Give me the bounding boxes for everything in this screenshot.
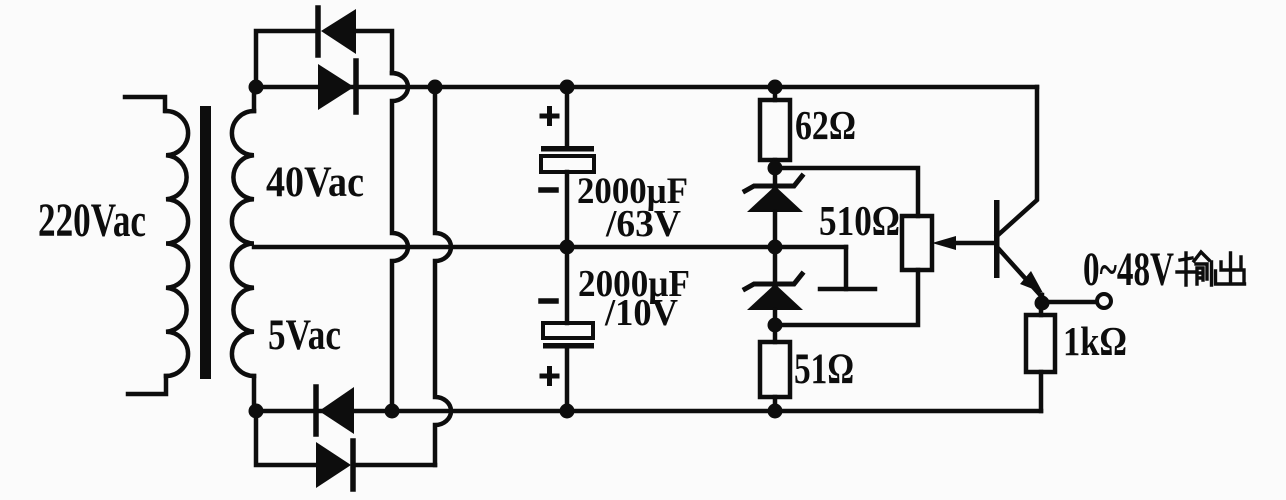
wire secondary bottom stub: [252, 376, 257, 411]
wire secondary top stub: [252, 87, 257, 111]
ground bar: [820, 287, 875, 292]
svg-text:/10V: /10V: [604, 292, 678, 334]
diode D3 triangle: [319, 387, 354, 434]
diode D2 triangle: [318, 64, 354, 110]
junction node crossing B top: [428, 80, 443, 95]
svg-text:40Vac: 40Vac: [266, 159, 364, 206]
junction node zener bottom: [768, 318, 783, 333]
svg-text:5Vac: 5Vac: [268, 312, 341, 359]
wire 51ohm to bottom rail: [773, 397, 778, 411]
C1 minus sign: [541, 187, 556, 193]
svg-text:510Ω: 510Ω: [819, 199, 900, 245]
output terminal circle: [1097, 294, 1111, 308]
hanzi shu (output char 1): [1177, 252, 1212, 285]
C2 plus sign: [542, 369, 557, 384]
wire Z2 anode to node: [773, 310, 778, 325]
transistor Q1 emitter lead: [997, 247, 1042, 297]
junction node zener middle: [768, 240, 783, 255]
capacitor C2 plate bottom: [543, 343, 594, 349]
junction node 51ohm bottom: [768, 404, 783, 419]
pot wiper wire: [952, 241, 996, 246]
wire emitter to output node: [1040, 295, 1045, 303]
hanzi chu (output char 2): [1216, 253, 1245, 284]
diode D4 cathode bar: [350, 441, 356, 489]
capacitor C2 plate top (hollow): [543, 323, 593, 338]
svg-text:62Ω: 62Ω: [795, 102, 856, 148]
ground stem: [844, 247, 849, 289]
zener Z1 cathode bar: [745, 176, 802, 191]
zener Z1 triangle: [747, 186, 803, 212]
wire C1 to middle rail: [565, 172, 570, 247]
wire 62ohm top lead: [773, 87, 778, 100]
svg-text:220Vac: 220Vac: [38, 194, 146, 247]
capacitor C1 plate top: [541, 146, 594, 152]
C2 minus sign: [541, 298, 556, 304]
junction node cap middle: [560, 240, 575, 255]
junction node cap bottom: [560, 404, 575, 419]
transformer core: [200, 106, 211, 379]
resistor 51ohm: [760, 342, 790, 397]
resistor 62ohm: [760, 100, 790, 160]
diode D1 cathode bar: [315, 8, 321, 55]
junction node secondary top: [249, 80, 264, 95]
wire zener-top node to pot top: [775, 168, 918, 216]
wire crossing vertical B with hops: [435, 87, 451, 465]
transformer primary winding: [166, 111, 188, 376]
wire up-branch from secondary top node: [256, 31, 316, 87]
svg-text:/63V: /63V: [605, 203, 682, 245]
diode D1 triangle: [321, 9, 356, 54]
zener Z1 lead: [773, 168, 778, 188]
wire D1 anode to corner: [356, 31, 392, 73]
capacitor C1 plate bottom (hollow): [541, 156, 594, 172]
C1 plus sign: [542, 109, 557, 124]
svg-text:0~48V: 0~48V: [1083, 243, 1174, 296]
wire 51ohm top lead: [773, 325, 778, 342]
svg-text:1kΩ: 1kΩ: [1063, 318, 1127, 364]
junction node 62ohm top: [768, 80, 783, 95]
wire middle rail to C2: [565, 247, 570, 323]
svg-text:51Ω: 51Ω: [794, 346, 854, 393]
transformer secondary winding: [232, 111, 254, 376]
junction node cap top: [560, 80, 575, 95]
wire bottom rail: [256, 409, 1041, 414]
wire zener-bottom node to pot bottom: [775, 270, 918, 325]
zener Z2 cathode bar: [745, 274, 802, 289]
transistor Q1 base bar: [994, 200, 1000, 278]
wire Z1 anode to middle rail: [773, 212, 778, 247]
wire node to 1k resistor: [1039, 303, 1044, 315]
wire 1k to bottom rail: [1039, 372, 1044, 411]
wire top rail: [256, 85, 1037, 90]
wire capacitor branch upper: [565, 87, 570, 146]
wire output node to terminal: [1042, 300, 1097, 305]
wire D4 cathode to corner: [353, 463, 435, 468]
diode D4 triangle: [316, 442, 351, 488]
diode D3 cathode bar: [313, 387, 319, 434]
zener Z2 lead: [773, 247, 778, 284]
diode D2 cathode bar: [353, 61, 359, 112]
potentiometer 510ohm body: [902, 216, 932, 270]
junction node secondary bottom: [249, 404, 264, 419]
junction node zener top: [768, 161, 783, 176]
wire middle rail: [254, 245, 846, 250]
transistor Q1 collector lead: [997, 87, 1037, 236]
wire crossing vertical A with hops: [392, 73, 408, 411]
resistor 1k: [1026, 315, 1055, 372]
transistor Q1 emitter arrowhead: [1020, 271, 1043, 293]
junction node emitter output: [1035, 296, 1050, 311]
wire primary top lead: [125, 97, 165, 111]
junction node crossing A bottom: [385, 404, 400, 419]
pot wiper arrowhead: [932, 236, 956, 250]
wire C2 to bottom rail: [565, 348, 570, 411]
wire down-branch from secondary bottom node: [256, 411, 316, 465]
wire 62ohm to zener node: [773, 160, 778, 168]
zener Z2 triangle: [747, 284, 803, 310]
wire primary bottom lead: [128, 376, 166, 394]
